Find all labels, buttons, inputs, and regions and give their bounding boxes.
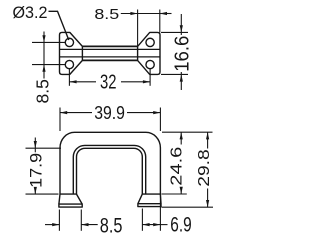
svg-text:Ø3.2: Ø3.2	[13, 3, 48, 22]
svg-text:32: 32	[100, 71, 117, 94]
svg-text:16.6: 16.6	[171, 36, 193, 72]
svg-text:17.9: 17.9	[27, 153, 46, 188]
svg-text:24.6: 24.6	[168, 147, 185, 186]
svg-text:8.5: 8.5	[94, 7, 119, 23]
svg-text:8.5: 8.5	[33, 79, 53, 103]
svg-text:8.5: 8.5	[100, 213, 123, 237]
svg-text:39.9: 39.9	[94, 103, 125, 123]
svg-text:6.9: 6.9	[170, 212, 191, 236]
svg-text:29.8: 29.8	[196, 149, 213, 187]
